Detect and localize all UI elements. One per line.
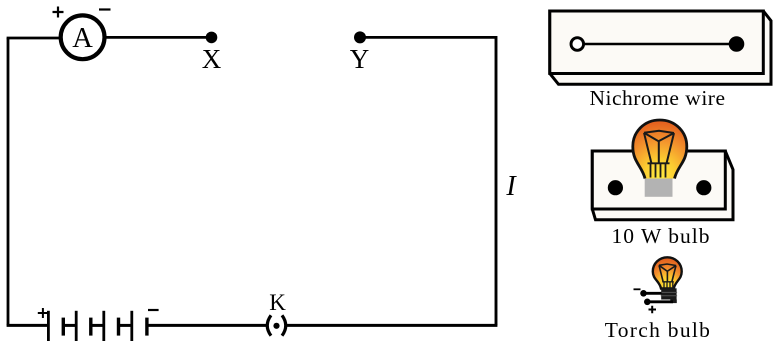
10W bulb filament frame bbox=[644, 131, 674, 164]
10W bulb socket base bbox=[645, 178, 673, 197]
wire left vertical bbox=[7, 38, 10, 325]
nichrome wire left terminal (open) bbox=[571, 38, 584, 51]
battery B1 cell3 short plate bbox=[117, 318, 120, 336]
battery B1 cell2 long plate bbox=[75, 311, 78, 341]
10W bulb glass bbox=[633, 120, 687, 179]
wire cell2-cell3 bbox=[91, 324, 104, 327]
key K contact dot bbox=[273, 323, 279, 329]
wire Y to top-right corner bbox=[360, 36, 496, 39]
wire cell3-cell4 bbox=[119, 324, 132, 327]
svg-text:Nichrome wire: Nichrome wire bbox=[589, 86, 725, 110]
wire right vertical bbox=[495, 36, 498, 325]
svg-text:Torch bulb: Torch bulb bbox=[605, 318, 711, 342]
svg-text:Y: Y bbox=[350, 44, 370, 74]
nichrome wire element bbox=[584, 43, 731, 45]
torch bulb filament coil bbox=[662, 282, 674, 288]
key K left paren bbox=[267, 315, 271, 335]
wire bottom left (corner to battery) bbox=[7, 324, 48, 327]
ammeter U1 bbox=[61, 15, 105, 59]
torch bulb negative lead wire bbox=[644, 292, 662, 295]
10W bulb holder top face bbox=[592, 151, 725, 209]
battery plus label bbox=[38, 308, 48, 318]
10W bulb holder left contact dot bbox=[608, 180, 623, 195]
battery B1 cell3 long plate bbox=[102, 311, 105, 341]
torch bulb glass bbox=[653, 257, 682, 288]
10W bulb holder 3D slab bbox=[592, 151, 733, 220]
battery B1 cell4 short plate bbox=[145, 318, 148, 336]
nichrome wire board top face bbox=[550, 11, 764, 74]
wire battery to key bbox=[147, 324, 267, 327]
svg-text:I: I bbox=[505, 171, 517, 202]
nichrome wire board 3D slab bbox=[550, 11, 771, 84]
wire ammeter to X bbox=[106, 36, 211, 39]
torch bulb minus label bbox=[634, 288, 641, 290]
torch bulb plus label bbox=[649, 306, 657, 313]
torch bulb filament frame bbox=[659, 264, 676, 282]
svg-text:K: K bbox=[269, 290, 286, 315]
wire bottom right (key to corner) bbox=[287, 324, 498, 327]
svg-text:X: X bbox=[202, 44, 222, 74]
10W bulb filament coil bbox=[648, 163, 670, 177]
torch bulb positive lead wire bbox=[648, 300, 673, 303]
svg-text:10 W bulb: 10 W bulb bbox=[612, 224, 711, 248]
battery B1 cell1 short plate bbox=[62, 318, 65, 336]
battery B1 cell4 long plate bbox=[130, 311, 133, 341]
nichrome wire right terminal (filled) bbox=[729, 36, 745, 52]
10W bulb holder right contact dot bbox=[696, 180, 711, 195]
node Y terminal dot bbox=[354, 31, 366, 43]
wire cell1-cell2 bbox=[63, 324, 76, 327]
battery B1 cell1 long plate bbox=[47, 311, 50, 341]
battery minus label bbox=[148, 309, 159, 311]
torch bulb bottom tip bbox=[670, 300, 677, 304]
node X terminal dot bbox=[206, 32, 218, 44]
torch bulb cap ridge lines bbox=[661, 292, 677, 295]
torch bulb screw cap bbox=[661, 288, 676, 299]
svg-text:A: A bbox=[72, 23, 93, 54]
ammeter plus label bbox=[53, 7, 64, 18]
ammeter minus label bbox=[99, 8, 111, 10]
wire top-left horizontal bbox=[7, 37, 62, 40]
torch bulb positive lead dot bbox=[644, 299, 651, 306]
key K right paren bbox=[282, 315, 286, 335]
battery B1 cell2 short plate bbox=[89, 318, 92, 336]
torch bulb negative lead dot bbox=[640, 290, 647, 297]
